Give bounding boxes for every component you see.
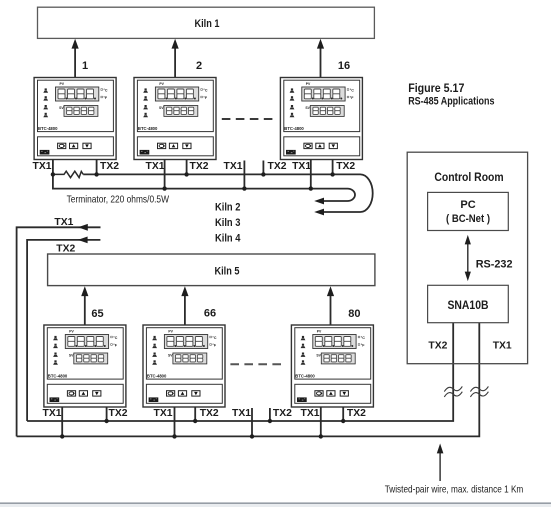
svg-text:Kiln 5: Kiln 5 <box>215 265 240 277</box>
svg-text:RS-232: RS-232 <box>476 258 513 270</box>
svg-text:65: 65 <box>91 308 103 320</box>
svg-text:TX2: TX2 <box>347 407 366 419</box>
svg-text:TX2: TX2 <box>336 160 355 172</box>
arrowhead TX1 continuation <box>314 198 324 205</box>
arrowhead TX1 feed <box>78 224 88 231</box>
controller U66 (BTC-4800) <box>143 325 225 407</box>
RS-232 link double arrow <box>467 243 469 274</box>
stub U1 TX1 <box>52 160 54 176</box>
controller U65 (BTC-4800) <box>44 325 126 407</box>
svg-text:Figure 5.17: Figure 5.17 <box>408 81 464 95</box>
junction mid TX2 <box>261 172 265 176</box>
TX1 bus wire with U-turn <box>53 174 355 201</box>
svg-text:1: 1 <box>82 60 88 72</box>
TX1 bus wire to SNA10B <box>17 323 480 437</box>
stub mid TX2 <box>262 161 264 175</box>
svg-text:Kiln 3: Kiln 3 <box>215 217 240 229</box>
junction U16 TX2 <box>330 172 334 176</box>
junction U65 TX1 <box>60 434 64 438</box>
junction U16 TX1 <box>309 186 313 190</box>
SNA10B box <box>428 285 509 322</box>
svg-text:Control Room: Control Room <box>434 170 503 184</box>
junction U1 TX2 <box>94 172 98 176</box>
svg-text:TX1: TX1 <box>154 407 173 419</box>
junction mid2 TX1 <box>250 434 254 438</box>
svg-text:TX2: TX2 <box>273 407 292 419</box>
svg-text:TX2: TX2 <box>56 242 75 254</box>
svg-text:TX1: TX1 <box>54 216 73 228</box>
junction U65 TX2 <box>104 419 108 423</box>
controller U16 (BTC-4800) <box>280 78 362 160</box>
svg-text:TX1: TX1 <box>301 407 320 419</box>
stub U66 TX1 <box>174 407 176 436</box>
svg-text:TX2: TX2 <box>100 160 119 172</box>
stub mid2 TX2 <box>269 408 271 421</box>
svg-text:TX2: TX2 <box>190 160 209 172</box>
stub U65 TX1 <box>61 407 63 436</box>
junction mid TX1 <box>242 186 246 190</box>
dashed continuation controllers 3..15 <box>222 118 273 120</box>
svg-text:TX2: TX2 <box>268 160 287 172</box>
svg-text:Kiln 2: Kiln 2 <box>215 201 240 213</box>
stub U80 TX2 <box>342 407 344 421</box>
wire U1 to Kiln 1 <box>74 47 76 78</box>
svg-text:Kiln 1: Kiln 1 <box>195 18 220 30</box>
stub U16 TX1 <box>310 160 312 189</box>
junction U2 TX1 <box>162 186 166 190</box>
junction U66 TX2 <box>193 419 197 423</box>
stub U16 TX2 <box>332 160 334 175</box>
cable break mark TX1 wire <box>470 386 488 391</box>
svg-text:TX1: TX1 <box>146 160 165 172</box>
svg-text:RS-485 Applications: RS-485 Applications <box>408 95 494 107</box>
footer separator line <box>0 502 551 504</box>
junction U66 TX1 <box>172 434 176 438</box>
wire U65 to Kiln 5 <box>84 294 86 325</box>
stub U80 TX1 <box>320 407 322 436</box>
svg-text:( BC-Net ): ( BC-Net ) <box>446 213 490 225</box>
svg-text:TX1: TX1 <box>493 339 512 351</box>
twisted pair callout arrow <box>439 452 441 482</box>
svg-text:TX1: TX1 <box>292 160 311 172</box>
TX2 bus wire with U-turn <box>83 174 373 212</box>
svg-text:TX1: TX1 <box>224 160 243 172</box>
junction U1 TX1 / resistor tap <box>51 172 55 176</box>
svg-text:80: 80 <box>348 308 360 320</box>
svg-text:Terminator, 220 ohms/0.5W: Terminator, 220 ohms/0.5W <box>67 194 169 206</box>
dashed continuation controllers 67..79 <box>230 363 282 365</box>
arrowhead TX2 feed <box>78 237 88 244</box>
controller U1 (BTC-4800) <box>34 78 116 160</box>
TX1 feed wire from kilns above <box>17 227 101 436</box>
svg-text:TX2: TX2 <box>428 339 447 351</box>
svg-text:Twisted-pair wire, max. distan: Twisted-pair wire, max. distance 1 Km <box>385 484 524 496</box>
svg-text:TX1: TX1 <box>43 407 62 419</box>
Kiln 1 box <box>38 7 375 38</box>
wire U16 to Kiln 1 <box>320 47 322 78</box>
svg-text:TX2: TX2 <box>109 407 128 419</box>
junction U80 TX1 <box>319 434 323 438</box>
svg-text:TX1: TX1 <box>232 407 251 419</box>
stub U1 TX2 <box>96 160 98 175</box>
stub U65 TX2 <box>106 407 108 421</box>
controller U2 (BTC-4800) <box>134 78 216 160</box>
stub U2 TX1 <box>164 160 166 189</box>
controller U80 (BTC-4800) <box>291 325 373 407</box>
junction mid2 TX2 <box>268 419 272 423</box>
svg-text:SNA10B: SNA10B <box>448 300 489 312</box>
Kiln 5 box <box>48 254 375 286</box>
wire U80 to Kiln 5 <box>330 294 332 325</box>
stub mid2 TX1 <box>251 408 253 436</box>
svg-text:TX2: TX2 <box>200 407 219 419</box>
Control Room box <box>407 152 527 364</box>
svg-text:2: 2 <box>196 60 202 72</box>
stub mid TX1 <box>243 161 245 189</box>
wire U2 to Kiln 1 <box>174 47 176 78</box>
footer strip <box>0 504 551 507</box>
TX2 bus wire to SNA10B <box>27 323 453 421</box>
svg-text:TX1: TX1 <box>33 160 52 172</box>
svg-text:66: 66 <box>204 308 216 320</box>
junction U80 TX2 <box>341 419 345 423</box>
svg-text:16: 16 <box>338 60 350 72</box>
terminator resistor 220 ohms <box>53 171 83 177</box>
svg-text:PC: PC <box>460 199 475 211</box>
arrowhead TX2 continuation <box>314 209 324 216</box>
junction U2 TX2 <box>184 172 188 176</box>
cable break mark TX2 wire <box>444 386 462 391</box>
svg-text:Kiln 4: Kiln 4 <box>215 233 241 245</box>
PC (BC-Net) box <box>428 192 509 230</box>
stub U66 TX2 <box>194 407 196 421</box>
stub U2 TX2 <box>186 160 188 175</box>
TX2 feed wire from kilns above <box>27 240 100 421</box>
wire U66 to Kiln 5 <box>184 294 186 325</box>
